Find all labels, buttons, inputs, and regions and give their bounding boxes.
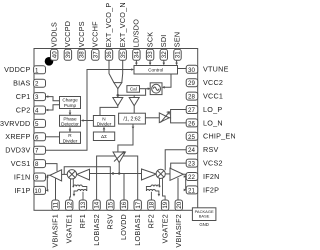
- svg-text:7: 7: [35, 148, 39, 155]
- arrow LO divider down: [132, 127, 135, 130]
- svg-text:XREFP: XREFP: [5, 132, 30, 141]
- svg-text:29: 29: [188, 80, 195, 87]
- arrow NDIV to PD left: [81, 119, 84, 122]
- svg-text:VBIASIF2: VBIASIF2: [174, 214, 183, 248]
- IF2 amp: [170, 168, 183, 180]
- svg-text:VCS2: VCS2: [203, 159, 223, 168]
- wire CP1 to charge pump: [46, 97, 60, 101]
- svg-text:3VRVDD: 3VRVDD: [0, 119, 31, 128]
- pin 40 box: [51, 49, 58, 60]
- svg-text:VBIASIF1: VBIASIF1: [51, 214, 60, 248]
- wire left buffer to N divider: [100, 106, 118, 116]
- svg-text:40: 40: [51, 51, 58, 58]
- pin 29 box: [186, 79, 198, 87]
- block N divider: [93, 116, 114, 127]
- wire buffer output to node: [117, 89, 119, 98]
- svg-text:LOBIAS1: LOBIAS1: [133, 214, 142, 246]
- wire IF1N branch: [46, 176, 49, 178]
- wire mixer2 to IF2 amp: [165, 173, 170, 175]
- pin 11 box: [52, 200, 59, 210]
- svg-text:14: 14: [94, 201, 101, 208]
- IF1 amp: [50, 170, 62, 181]
- wire RSV24 riser: [165, 150, 186, 171]
- svg-text:Control: Control: [148, 68, 163, 73]
- svg-text:25: 25: [188, 134, 195, 141]
- wire phase detector to charge pump: [69, 110, 71, 116]
- pin 14 box: [93, 200, 100, 210]
- block control: [134, 66, 178, 75]
- svg-text:BASE: BASE: [199, 214, 210, 219]
- svg-text:22: 22: [188, 174, 195, 181]
- wire SPI LD/SDO into control: [135, 60, 137, 64]
- svg-text:1: 1: [35, 67, 39, 74]
- pin 12 box: [66, 200, 73, 210]
- pin 28 box: [186, 92, 198, 100]
- left pin boxes: [34, 66, 46, 195]
- wire VCS2 to IF2 amp: [171, 163, 187, 168]
- svg-text:35: 35: [120, 51, 127, 58]
- svg-text:39: 39: [65, 51, 72, 58]
- arrow into control pin34: [135, 63, 138, 66]
- svg-text:ΔΣ: ΔΣ: [101, 134, 107, 139]
- wire LO vga to LO line: [118, 163, 120, 174]
- pin 38 box: [78, 49, 85, 60]
- arrow into IF1P: [46, 189, 49, 192]
- svg-text:17: 17: [135, 201, 142, 208]
- LO output vga triangle: [159, 113, 169, 123]
- left LO amp: [77, 169, 90, 180]
- pin 24 box: [186, 146, 198, 154]
- svg-text:5: 5: [35, 121, 39, 128]
- wire VBIASIF1 riser: [55, 178, 57, 200]
- pin 3 box: [34, 93, 46, 101]
- pin 21 box: [186, 186, 198, 194]
- svg-text:20: 20: [176, 201, 183, 208]
- wire XREFP to R divider: [46, 136, 60, 138]
- pin 19 box: [161, 200, 168, 210]
- pin 39 box: [64, 49, 71, 60]
- svg-text:LD/SDO: LD/SDO: [132, 19, 141, 47]
- left pin labels: [0, 65, 31, 195]
- right pin labels: [203, 65, 236, 195]
- svg-text:DVD3V: DVD3V: [5, 146, 30, 155]
- pin 37 box: [92, 49, 99, 60]
- block texts: [61, 68, 214, 227]
- svg-text:3: 3: [35, 94, 39, 101]
- svg-text:19: 19: [162, 201, 169, 208]
- arrowheads: [46, 63, 187, 192]
- svg-text:38: 38: [79, 51, 86, 58]
- wire cal to vco: [140, 88, 151, 90]
- wire IF2N branch: [185, 176, 188, 178]
- svg-text:VGATE1: VGATE1: [64, 214, 73, 243]
- VCO circle with sine: [152, 84, 161, 93]
- wire LO line: [90, 173, 142, 175]
- right LO amp: [142, 169, 157, 180]
- svg-text:28: 28: [188, 94, 195, 101]
- block R divider: [60, 132, 81, 143]
- pin 33 box: [146, 49, 153, 60]
- junction dot LO line left: [112, 172, 114, 174]
- wire DVD3V bus to control: [46, 70, 133, 151]
- arrow into IF2P: [184, 189, 187, 192]
- wire RSV15 riser: [64, 167, 110, 200]
- svg-text:15: 15: [107, 201, 114, 208]
- right pin numbers: [188, 67, 195, 195]
- wire vga to LO_N: [171, 118, 187, 123]
- pin 16 box: [120, 200, 127, 210]
- svg-text:33: 33: [147, 51, 154, 58]
- svg-text:23: 23: [188, 161, 195, 168]
- arrow into IF2N: [184, 175, 187, 178]
- svg-text:IF2P: IF2P: [203, 185, 219, 194]
- svg-text:BIAS: BIAS: [13, 79, 30, 88]
- svg-text:VGATE2: VGATE2: [160, 214, 169, 243]
- svg-text:9: 9: [35, 175, 39, 182]
- wire EXT_VCO_P down: [109, 60, 114, 82]
- pin 7 box: [34, 146, 46, 154]
- LO vga gain arrow: [114, 152, 125, 162]
- arrow into VCO tune: [162, 86, 165, 89]
- block delta sigma: [93, 132, 114, 141]
- svg-text:VDDLS: VDDLS: [49, 22, 58, 47]
- wire control to VCO tune: [163, 74, 171, 87]
- svg-text:30: 30: [188, 67, 195, 74]
- svg-text:31: 31: [175, 51, 182, 58]
- wire SDI into control: [163, 60, 165, 64]
- chip body outline: [34, 49, 198, 211]
- pin 17 box: [134, 200, 141, 210]
- pin 23 box: [186, 159, 198, 167]
- svg-text:24: 24: [188, 147, 195, 154]
- pin 25 box: [186, 132, 198, 140]
- svg-text:VCCPD: VCCPD: [63, 21, 72, 47]
- buffer to LO divider: [129, 98, 139, 106]
- svg-text:LO_P: LO_P: [203, 105, 222, 114]
- svg-text:RF2: RF2: [147, 214, 156, 228]
- pin 35 box: [119, 49, 126, 60]
- wire right buffer to LO divider: [133, 106, 135, 113]
- wire SEN into control: [176, 60, 178, 64]
- svg-text:IF1P: IF1P: [14, 186, 30, 195]
- pin 34 box: [133, 49, 140, 60]
- buffer to N divider: [113, 98, 123, 106]
- wire R divider to phase detector: [69, 128, 71, 133]
- svg-text:CP1: CP1: [16, 92, 31, 101]
- wire node to cal-vco net: [118, 89, 146, 96]
- bottom pin numbers (rotated): [53, 201, 183, 208]
- wire node to right buffer: [133, 95, 135, 97]
- svg-text:LOBIAS2: LOBIAS2: [92, 214, 101, 246]
- svg-text:GND: GND: [199, 222, 209, 227]
- svg-text:VCC2: VCC2: [203, 78, 223, 87]
- pin 27 box: [186, 106, 198, 114]
- block phase detector: [60, 115, 81, 126]
- svg-text:18: 18: [149, 201, 156, 208]
- left pin numbers: [34, 67, 41, 195]
- svg-text:Cal: Cal: [130, 87, 137, 92]
- svg-text:32: 32: [161, 51, 168, 58]
- svg-text:VTUNE: VTUNE: [203, 65, 229, 74]
- svg-text:16: 16: [121, 201, 128, 208]
- arrow into CP2: [46, 109, 49, 112]
- buffer ext vco: [114, 83, 122, 89]
- pin 4 box: [34, 106, 46, 114]
- pin 6 box: [34, 133, 46, 141]
- arrow into control pin32: [163, 63, 166, 66]
- svg-text:2: 2: [35, 81, 39, 88]
- pin 15 box: [107, 200, 114, 210]
- svg-text:RSV: RSV: [106, 214, 115, 230]
- arrow into control: [131, 68, 134, 71]
- arrow cal into VCO: [148, 87, 151, 90]
- pin 8 box: [34, 160, 46, 168]
- mixers: [67, 169, 165, 179]
- arrow into control pin33: [149, 63, 152, 66]
- mixer 2: [156, 169, 165, 178]
- top pin labels (rotated): [49, 2, 181, 47]
- pin 32 box: [160, 49, 167, 60]
- pin 36 box: [105, 49, 112, 60]
- wire control to VTUNE: [178, 68, 187, 70]
- svg-text:VCCPS: VCCPS: [77, 21, 86, 47]
- svg-text:LO_N: LO_N: [203, 118, 223, 127]
- wire LOBIAS2 riser loop: [97, 156, 138, 200]
- wire LOVDD riser: [123, 174, 125, 201]
- arrow into control pin31: [175, 63, 178, 66]
- mixer 1: [67, 170, 76, 179]
- wire VCS1 to IF1 amp: [46, 164, 57, 172]
- svg-text:12: 12: [66, 201, 73, 208]
- svg-text:27: 27: [188, 107, 195, 114]
- right pin boxes: [186, 65, 198, 194]
- block charge pump: [60, 97, 81, 109]
- wire SCK into control: [149, 60, 151, 64]
- svg-text:4: 4: [35, 108, 39, 115]
- svg-text:EXT_VCO_N: EXT_VCO_N: [118, 2, 127, 47]
- package base box: [192, 208, 216, 221]
- matching network right: [146, 178, 165, 200]
- svg-text:8: 8: [35, 161, 39, 168]
- svg-text:34: 34: [134, 51, 141, 58]
- arrow DS to NDIV up: [103, 127, 106, 130]
- wire vga to LO_P: [169, 110, 186, 118]
- svg-text:IF1N: IF1N: [14, 172, 31, 181]
- pin 26 box: [186, 119, 198, 127]
- wire VBIASIF2 riser: [177, 178, 179, 200]
- svg-text:SEN: SEN: [173, 32, 182, 48]
- pin 5 box: [34, 119, 46, 127]
- pin 10 box: [34, 186, 46, 194]
- buffers / amplifiers: [50, 83, 183, 181]
- junction dot LO line vga: [118, 172, 120, 174]
- vga arrows: [114, 112, 170, 162]
- top pin boxes: [51, 49, 182, 60]
- svg-text:Divider: Divider: [63, 138, 78, 143]
- svg-text:37: 37: [92, 51, 99, 58]
- pin 20 box: [175, 200, 182, 210]
- arrow into IF1N: [46, 176, 49, 179]
- wire EXT_VCO_N down: [121, 60, 124, 82]
- block LO divider: [119, 113, 146, 124]
- pin 18 box: [148, 200, 155, 210]
- svg-text:Detector: Detector: [61, 122, 79, 127]
- wire IF2 fork: [183, 174, 186, 190]
- wire delta-sigma to N divider: [103, 128, 105, 133]
- pin 30 box: [186, 65, 198, 73]
- arrow CP to PD down: [69, 113, 72, 116]
- svg-text:SCK: SCK: [145, 32, 154, 48]
- svg-text:Charge: Charge: [62, 98, 78, 103]
- svg-text:VCS1: VCS1: [11, 159, 31, 168]
- svg-text:Divider: Divider: [97, 122, 112, 127]
- svg-text:LOVDD: LOVDD: [119, 214, 128, 240]
- svg-text:10: 10: [34, 188, 41, 195]
- pin 31 box: [174, 49, 181, 60]
- LO vga triangle: [113, 152, 125, 163]
- matching network left: [70, 179, 87, 200]
- wire LO divider to LO vga: [118, 124, 133, 152]
- pin 13 box: [79, 200, 86, 210]
- svg-text:11: 11: [53, 201, 60, 208]
- pin 1 indicator dot: [45, 57, 54, 66]
- block VCO square: [150, 83, 162, 95]
- bottom pin labels (rotated): [51, 214, 183, 248]
- svg-text:CP2: CP2: [16, 105, 31, 114]
- wire N divider to phase detector: [82, 120, 94, 122]
- pin 1 box: [34, 66, 46, 74]
- arrow into CP1: [46, 95, 49, 98]
- pin 2 box: [34, 79, 46, 87]
- wire CP2 to charge pump: [46, 105, 60, 110]
- junction dot vco node: [117, 94, 120, 97]
- pin 9 box: [34, 173, 46, 181]
- svg-text:Pump: Pump: [64, 103, 77, 108]
- svg-text:26: 26: [188, 120, 195, 127]
- wire IF1 fork: [47, 175, 50, 190]
- svg-text:EXT_VCO_P: EXT_VCO_P: [104, 3, 113, 48]
- svg-text:VDDCP: VDDCP: [4, 65, 30, 74]
- svg-text:21: 21: [188, 187, 195, 194]
- svg-text:/1, 2:62: /1, 2:62: [123, 116, 140, 122]
- wire IF1 amp to mixer: [62, 173, 68, 175]
- wire LO divider to output vga: [145, 117, 159, 119]
- top pin numbers (rotated): [51, 51, 181, 58]
- pin 22 box: [186, 173, 198, 181]
- svg-text:SDI: SDI: [159, 34, 168, 47]
- svg-text:IF2N: IF2N: [203, 172, 220, 181]
- svg-text:36: 36: [106, 51, 113, 58]
- arrow PD to RDIV down: [69, 129, 72, 132]
- svg-text:VCC1: VCC1: [203, 92, 223, 101]
- block cal: [127, 86, 140, 93]
- svg-text:VCCHF: VCCHF: [91, 21, 100, 47]
- svg-text:6: 6: [35, 134, 39, 141]
- svg-text:CHIP_EN: CHIP_EN: [203, 132, 235, 141]
- svg-text:RF1: RF1: [78, 214, 87, 228]
- svg-text:13: 13: [80, 201, 87, 208]
- LO output vga gain arrow: [161, 112, 170, 123]
- bottom pin boxes: [52, 200, 183, 210]
- svg-text:RSV: RSV: [203, 145, 219, 154]
